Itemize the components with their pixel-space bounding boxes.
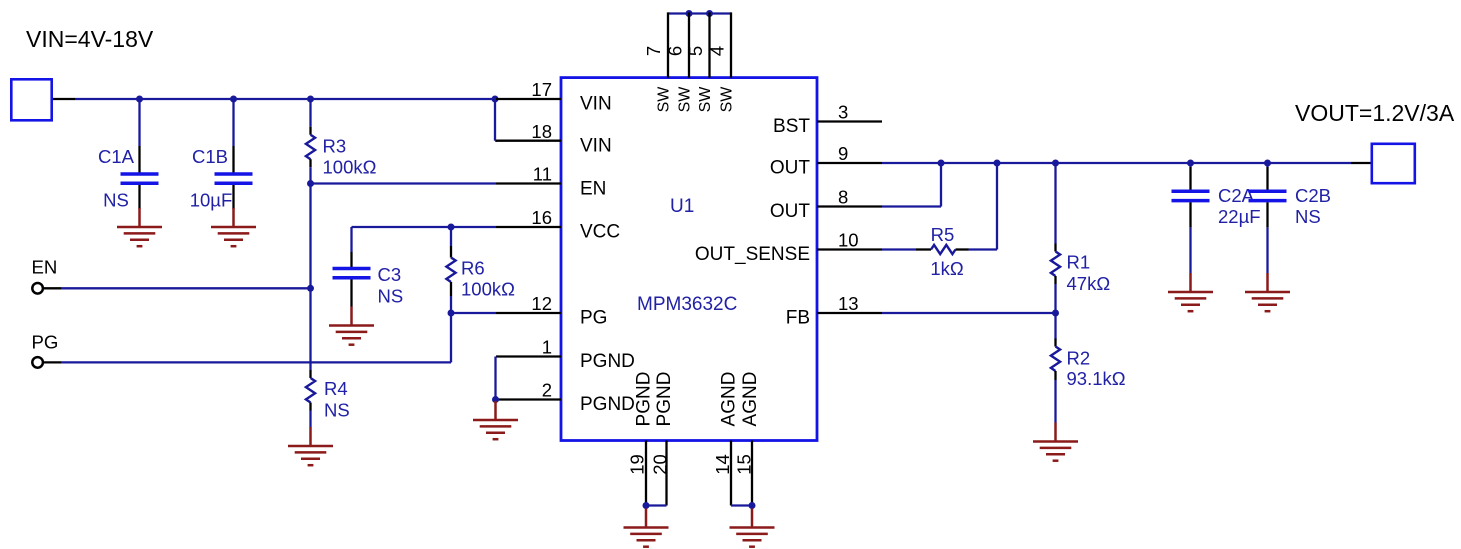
resistor R6 (446, 227, 515, 313)
svg-text:PGND: PGND (580, 351, 635, 372)
svg-text:NS: NS (1295, 206, 1321, 227)
wire R5 to OUT rail (969, 248, 998, 250)
pin 15 AGND bottom (751, 441, 753, 506)
svg-text:VOUT=1.2V/3A: VOUT=1.2V/3A (1295, 100, 1455, 126)
svg-text:OUT_SENSE: OUT_SENSE (695, 244, 810, 265)
svg-text:3: 3 (838, 102, 848, 123)
pin 5 SW (708, 12, 710, 77)
node junction R6/PG (448, 310, 455, 317)
svg-text:C1B: C1B (192, 146, 228, 167)
svg-text:NS: NS (378, 286, 404, 307)
ground below C2A (1168, 273, 1213, 311)
svg-text:PG: PG (32, 332, 59, 353)
svg-text:R6: R6 (461, 258, 485, 279)
ground below PGND pins (473, 401, 518, 439)
svg-text:10µF: 10µF (190, 190, 233, 211)
svg-text:100kΩ: 100kΩ (461, 279, 515, 300)
svg-text:OUT: OUT (770, 201, 811, 222)
ground below C1A (117, 208, 162, 246)
svg-text:47kΩ: 47kΩ (1067, 273, 1111, 294)
node junction OUT/OUT_SENSE riser (994, 160, 1001, 167)
svg-text:R5: R5 (931, 224, 955, 245)
svg-text:4: 4 (707, 46, 728, 56)
top SW loop wire (668, 12, 731, 14)
svg-text:C3: C3 (378, 264, 402, 285)
svg-text:SW: SW (697, 86, 714, 113)
svg-text:NS: NS (324, 400, 350, 421)
svg-text:7: 7 (643, 46, 664, 56)
svg-text:16: 16 (531, 207, 552, 228)
svg-text:VIN: VIN (580, 94, 612, 115)
svg-text:14: 14 (712, 454, 733, 475)
wire PGND pin1 to pin2 (494, 357, 496, 400)
node junction R3/EN (307, 180, 314, 187)
ground below C3 (329, 307, 374, 345)
node junction PGND bottom (643, 502, 650, 509)
svg-text:VCC: VCC (580, 221, 620, 242)
pin 12 PG (496, 312, 561, 314)
pin 9 OUT (817, 162, 882, 164)
wire PG vertical up to R6 (450, 313, 452, 362)
svg-text:C2A: C2A (1218, 185, 1255, 206)
pin of PG port (43, 361, 61, 363)
wire EN vertical R3 to R4 (309, 184, 311, 371)
pin 4 SW (730, 12, 732, 77)
svg-text:AGND: AGND (719, 372, 740, 427)
svg-text:PG: PG (580, 308, 607, 329)
node junction OUT/C2B (1264, 160, 1271, 167)
pin 7 SW (667, 12, 669, 77)
wire VIN rail (75, 98, 495, 100)
pin of VIN port (53, 98, 75, 100)
pin 8 OUT (817, 205, 882, 207)
node junction R3/VIN (307, 96, 314, 103)
ground below C2B (1245, 273, 1290, 311)
wire OUT_SENSE to R5 (882, 248, 916, 250)
wire PG horizontal (62, 361, 451, 363)
svg-text:15: 15 (734, 454, 755, 475)
svg-text:13: 13 (838, 293, 859, 314)
node junction R6/VCC (448, 224, 455, 231)
resistor R4 (306, 370, 350, 427)
svg-text:VIN: VIN (580, 136, 612, 157)
pin 20 PGND bottom (665, 441, 667, 506)
svg-text:5: 5 (685, 46, 706, 56)
port connector VOUT (1372, 144, 1415, 183)
pin 2 PGND (496, 398, 561, 400)
wire EN port to divider (62, 287, 311, 289)
svg-text:EN: EN (32, 257, 58, 278)
node junction EN/R4 (307, 285, 314, 292)
svg-text:9: 9 (838, 143, 848, 164)
svg-text:R4: R4 (324, 378, 348, 399)
ground below pins 19/20 (624, 509, 669, 547)
capacitor C1A (98, 99, 159, 211)
svg-text:20: 20 (650, 454, 671, 475)
wire pin17 corner to pin18 (494, 99, 496, 141)
svg-text:C1A: C1A (98, 146, 135, 167)
pin 19 PGND bottom (645, 441, 647, 506)
pin 10 OUT_SENSE (817, 248, 882, 250)
svg-text:19: 19 (627, 454, 648, 475)
resistor R3 (306, 99, 377, 184)
svg-text:11: 11 (533, 164, 552, 185)
wire FB net (882, 312, 1056, 314)
svg-text:100kΩ: 100kΩ (323, 157, 377, 178)
svg-text:MPM3632C: MPM3632C (637, 294, 737, 315)
ground below R4 (288, 427, 333, 465)
node junction OUT/R1 (1052, 160, 1059, 167)
EN terminal circle (32, 283, 43, 294)
svg-text:BST: BST (773, 116, 810, 137)
node junction PGND (492, 396, 499, 403)
PG terminal circle (32, 357, 43, 368)
capacitor C3 (333, 227, 404, 307)
svg-text:SW: SW (656, 86, 673, 113)
svg-text:U1: U1 (670, 196, 694, 217)
svg-text:EN: EN (580, 179, 606, 200)
pin 17 VIN (496, 98, 561, 100)
wire PGND 19-20 join (646, 504, 667, 506)
pin 16 VCC (496, 226, 561, 228)
pin 13 FB (817, 312, 882, 314)
node junction SW pin5 (706, 10, 713, 17)
svg-text:FB: FB (786, 308, 810, 329)
pin 3 BST (817, 120, 882, 122)
svg-text:SW: SW (677, 86, 694, 113)
wire OUT rail (882, 162, 1351, 164)
svg-text:SW: SW (719, 86, 736, 113)
node junction C1B/VIN (230, 96, 237, 103)
svg-text:1: 1 (542, 337, 552, 358)
svg-text:18: 18 (531, 121, 552, 142)
svg-text:R2: R2 (1067, 347, 1091, 368)
ground below C1B (211, 208, 256, 246)
pin 11 EN (496, 182, 561, 184)
node junction C1A/VIN (136, 96, 143, 103)
svg-text:1kΩ: 1kΩ (930, 258, 964, 279)
node junction OUT/C2A (1187, 160, 1194, 167)
capacitor C2A (1172, 163, 1261, 273)
svg-text:R3: R3 (323, 136, 347, 157)
resistor R1 (1051, 163, 1110, 313)
node junction SW pin6 (686, 10, 693, 17)
wire AGND 14-15 join (731, 504, 752, 506)
wire pin8 to OUT rail (882, 205, 941, 207)
svg-text:C2B: C2B (1295, 185, 1331, 206)
svg-text:93.1kΩ: 93.1kΩ (1067, 368, 1126, 389)
svg-text:VIN=4V-18V: VIN=4V-18V (26, 26, 154, 52)
pin 18 VIN (496, 140, 561, 142)
svg-text:PGND: PGND (654, 372, 675, 427)
svg-text:PGND: PGND (634, 372, 655, 427)
svg-text:17: 17 (531, 79, 552, 100)
pin of EN port (43, 287, 61, 289)
pin 6 SW (688, 12, 690, 77)
svg-text:AGND: AGND (740, 372, 761, 427)
svg-text:NS: NS (103, 190, 129, 211)
node junction AGND bottom (749, 502, 756, 509)
wire VCC net (352, 226, 497, 228)
capacitor C2B (1249, 163, 1332, 273)
ground below R2 (1033, 423, 1078, 461)
node junction FB/R1/R2 (1052, 310, 1059, 317)
resistor R5 (916, 224, 969, 279)
ground below pins 14/15 (730, 509, 775, 547)
pin 1 PGND (496, 355, 561, 357)
wire EN net to pin 11 (311, 182, 497, 184)
svg-text:10: 10 (838, 230, 859, 251)
node junction OUT/pin8 riser (938, 160, 945, 167)
node junction VIN pin17/pin18 (492, 96, 499, 103)
svg-text:22µF: 22µF (1218, 206, 1261, 227)
wire PG to pin 12 (451, 312, 496, 314)
svg-text:R1: R1 (1067, 252, 1091, 273)
capacitor C1B (190, 99, 253, 211)
IC U1 body (561, 78, 817, 441)
svg-text:OUT: OUT (770, 158, 811, 179)
svg-text:6: 6 (665, 46, 686, 56)
pin of VOUT port (1351, 162, 1371, 164)
port connector VIN (11, 79, 51, 120)
svg-text:PGND: PGND (580, 394, 635, 415)
svg-text:12: 12 (531, 293, 552, 314)
pin 14 AGND bottom (730, 441, 732, 506)
svg-text:8: 8 (838, 187, 848, 208)
svg-text:2: 2 (542, 380, 552, 401)
resistor R2 (1051, 313, 1126, 423)
